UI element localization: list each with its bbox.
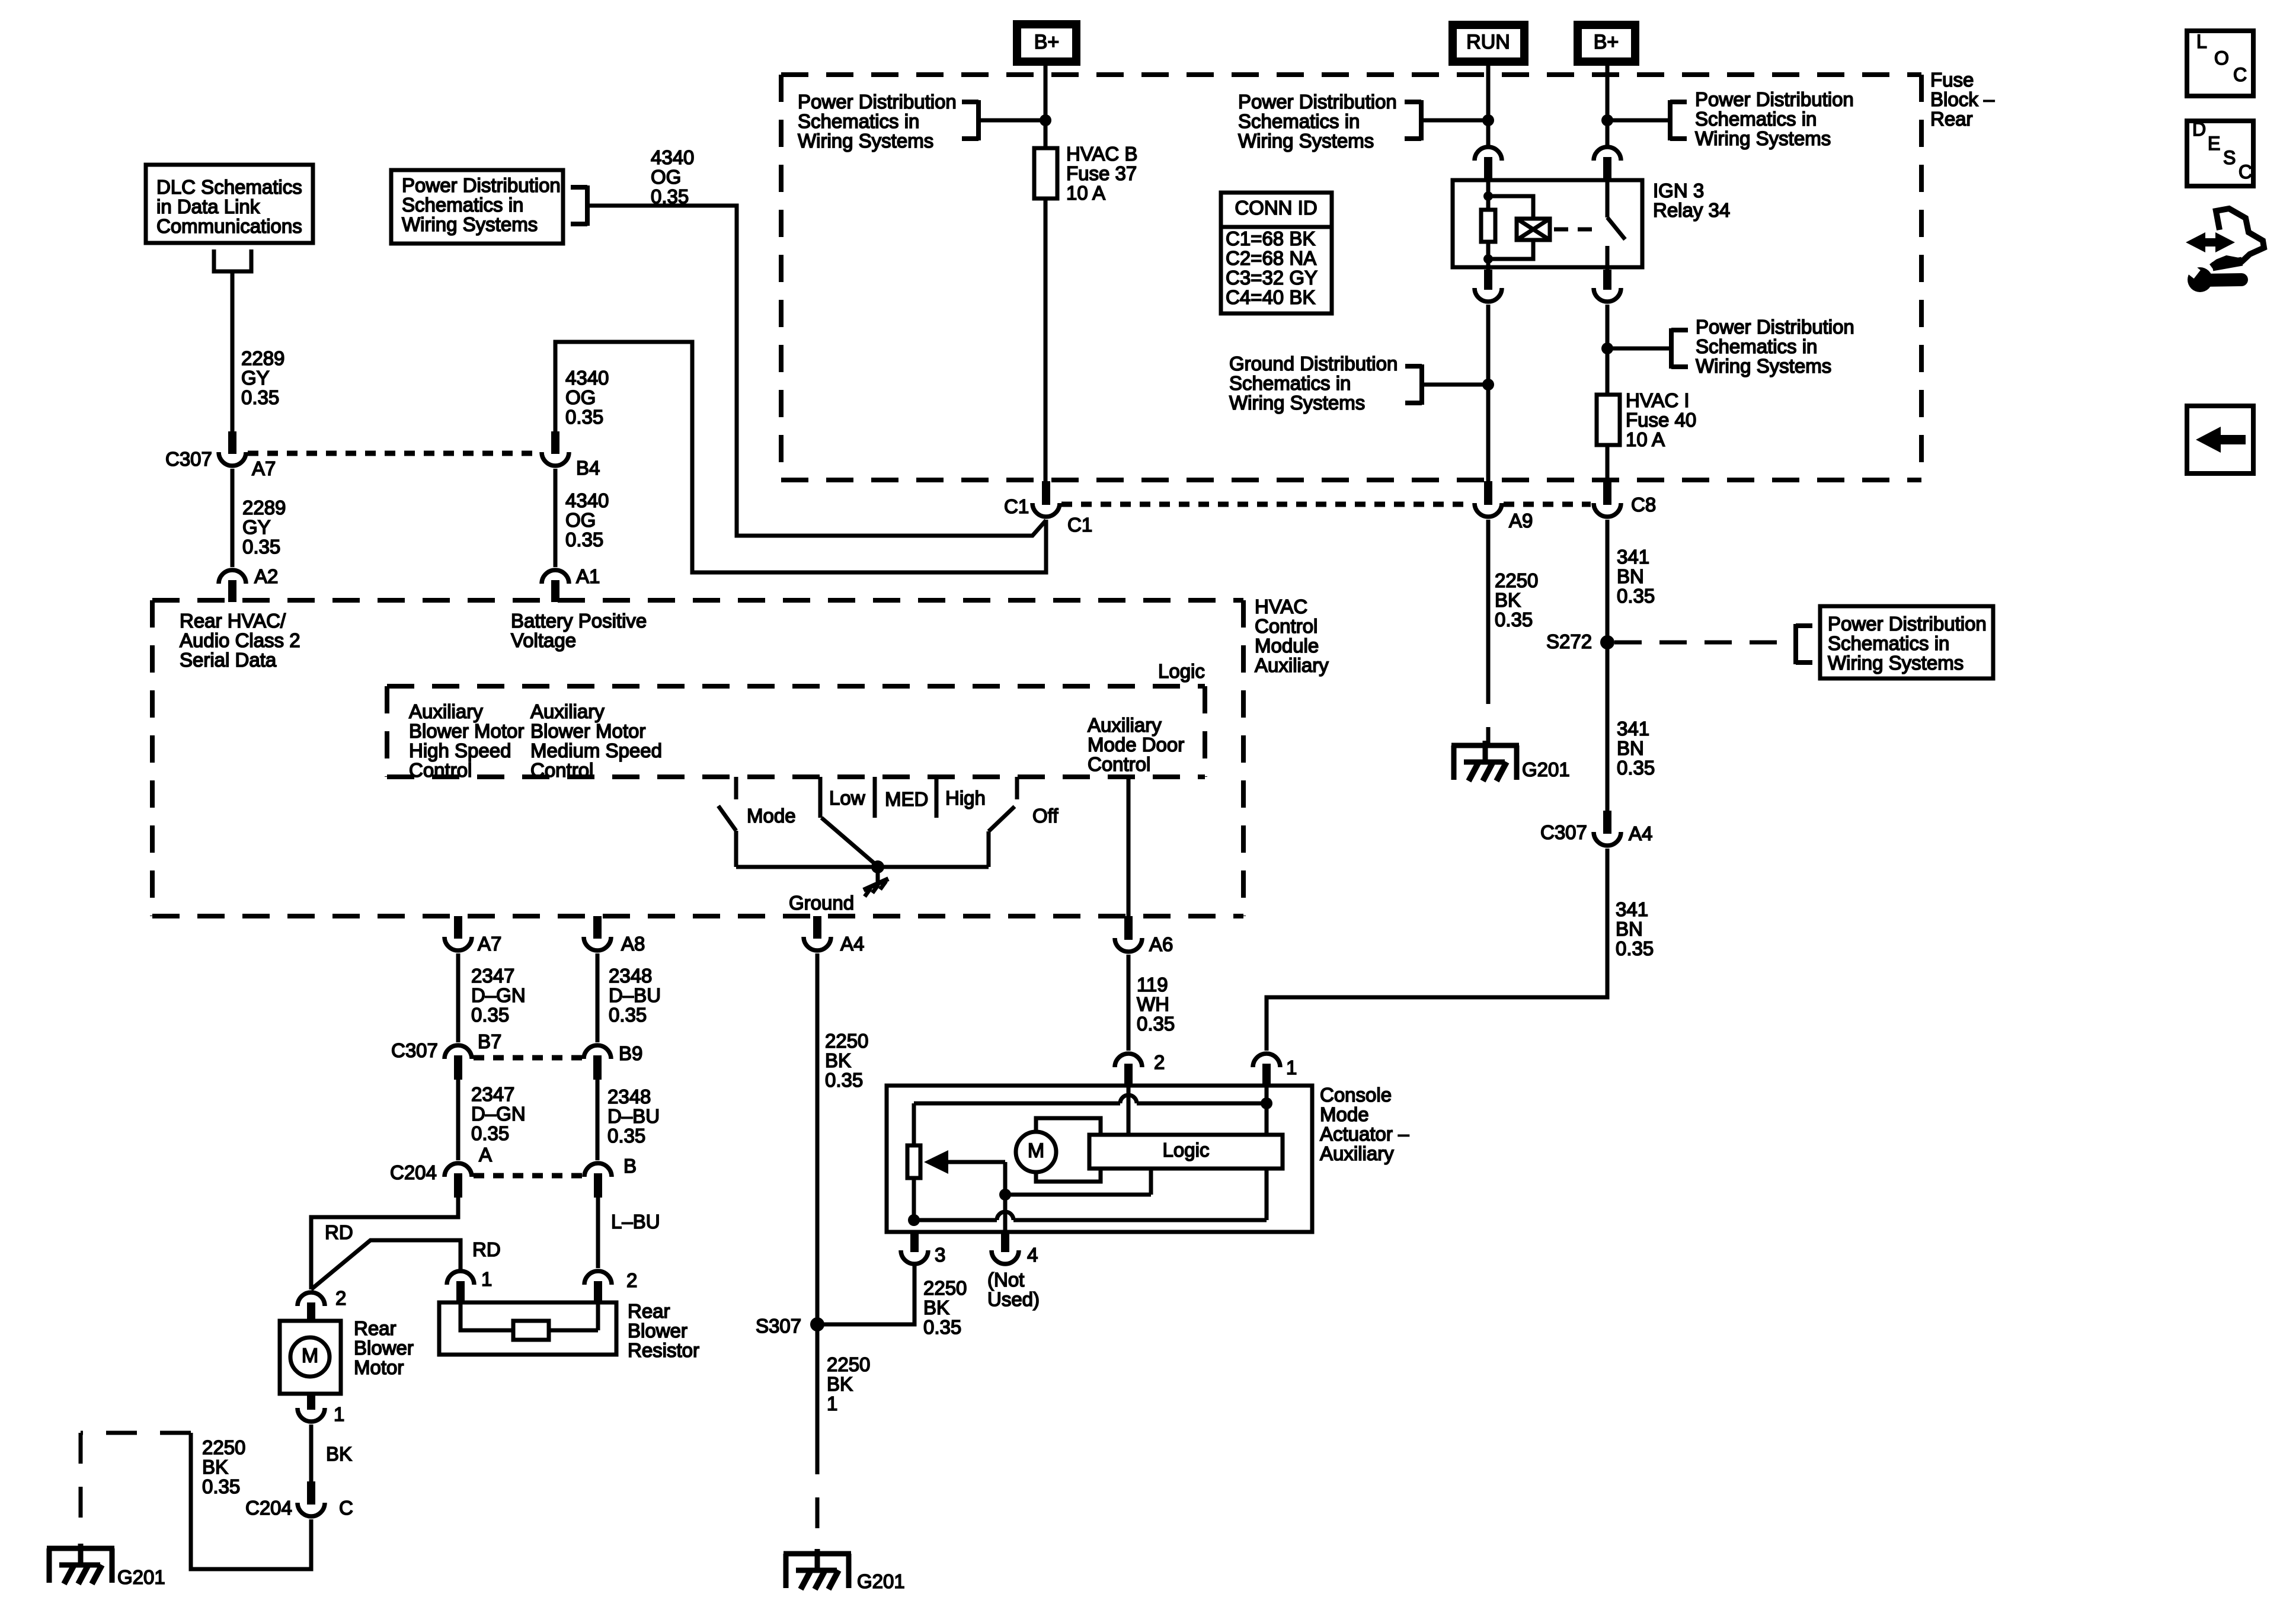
value label 2348 D-BU 0.35 (upper) [609, 965, 661, 1026]
svg-text:1: 1 [481, 1268, 492, 1290]
label Auxiliary Mode Door Control [1088, 714, 1184, 775]
relay coil symbol (box with X) [1517, 219, 1550, 240]
wire label RD (resistor) [472, 1238, 501, 1260]
svg-text:Serial Data: Serial Data [180, 649, 277, 671]
svg-text:4: 4 [1027, 1244, 1038, 1266]
value label 2347 D-GN 0.35 (lower) [471, 1083, 526, 1166]
module pin A2 connector [219, 570, 246, 602]
connector C1 (fuse block) [1032, 481, 1060, 517]
junction relay coil ground wire [1482, 379, 1494, 391]
svg-text:4340: 4340 [651, 146, 694, 168]
wire 341 BN from S272 to C307 A4 [1606, 642, 1610, 812]
relay switch input connector (B+) [1594, 147, 1621, 180]
wire 2250 BK from A9 to G201 [1486, 520, 1491, 744]
svg-text:0.35: 0.35 [825, 1069, 863, 1091]
svg-text:G201: G201 [1522, 758, 1570, 780]
icon adjust/repair (arrow and wrench) [2182, 209, 2264, 292]
wire 2289 GY from DLC box to C307 [231, 270, 235, 433]
wire RD C204 A to blower motor [311, 1198, 458, 1289]
actuator motor bracket [1036, 1118, 1101, 1182]
relay switch contact and blade [1607, 180, 1625, 270]
icon box LOC [2187, 31, 2253, 96]
svg-text:B9: B9 [619, 1042, 642, 1064]
svg-text:2250: 2250 [923, 1277, 967, 1299]
label High [945, 787, 986, 809]
svg-text:341: 341 [1617, 718, 1649, 740]
label Rear Blower Motor [354, 1317, 414, 1378]
svg-text:Schematics in: Schematics in [1695, 108, 1817, 130]
svg-text:C8: C8 [1631, 494, 1656, 516]
fuse HVAC B Fuse 37 10A [1034, 143, 1137, 204]
svg-text:Battery Positive: Battery Positive [511, 610, 647, 632]
rear blower motor M [280, 1321, 341, 1394]
svg-text:Power Distribution: Power Distribution [798, 91, 957, 113]
svg-text:L–BU: L–BU [611, 1211, 660, 1233]
svg-text:BK: BK [825, 1049, 851, 1071]
connector bracket under DLC box [214, 249, 251, 271]
svg-text:Wiring Systems: Wiring Systems [798, 130, 933, 152]
svg-text:Schematics in: Schematics in [402, 194, 523, 216]
selector contact bars MED [875, 777, 936, 818]
label C307 (row 1) [165, 448, 212, 470]
label (Not Used) [987, 1269, 1040, 1310]
fuse HVAC I Fuse 40 10A [1597, 389, 1696, 450]
svg-text:B+: B+ [1034, 31, 1060, 53]
bracket for S272 power distribution box [1796, 624, 1812, 664]
resistor element [461, 1301, 598, 1340]
connector C307 pin B4 (battery positive 4340) [542, 431, 569, 466]
svg-text:2347: 2347 [471, 965, 514, 987]
svg-text:Fuse 40: Fuse 40 [1626, 409, 1696, 431]
wire 2289 GY from C307 A7 to module A2 [231, 469, 235, 567]
svg-text:0.35: 0.35 [1616, 937, 1654, 959]
wire 2347 D-GN A7 to C307 B7 [456, 953, 461, 1042]
wire 2250 BK A4 to S307 [816, 953, 820, 1324]
svg-text:C3=32 GY: C3=32 GY [1226, 267, 1318, 289]
svg-text:Mode: Mode [1320, 1103, 1369, 1125]
switch Off [989, 777, 1059, 867]
actuator pin 1 inner wire [1265, 1086, 1269, 1220]
svg-text:Schematics in: Schematics in [1238, 110, 1360, 132]
actuator bottom rail with hop [914, 1212, 1267, 1220]
resistor pin 2 connector [584, 1269, 637, 1301]
svg-text:B4: B4 [576, 457, 600, 479]
svg-text:Resistor: Resistor [628, 1339, 699, 1361]
svg-text:High: High [945, 787, 986, 809]
svg-text:BK: BK [923, 1297, 949, 1318]
label Rear Blower Resistor [628, 1300, 699, 1361]
ground G201 (S307) [784, 1549, 905, 1592]
table CONN ID [1221, 193, 1332, 313]
C307 connector boundary dotted line [248, 451, 540, 456]
dashed wire S272 to Power Distribution reference [1614, 641, 1796, 645]
svg-text:1: 1 [1286, 1057, 1297, 1078]
svg-text:A1: A1 [576, 565, 600, 587]
svg-text:High Speed: High Speed [409, 740, 511, 761]
reference Power Distribution Schematics (RUN) [1238, 91, 1488, 152]
module pin A8 connector (medium speed) [584, 916, 645, 955]
reference Ground Distribution Schematics (relay coil ground) [1229, 353, 1488, 414]
svg-text:Block –: Block – [1930, 88, 1995, 110]
junction on B+ relay wire [1601, 114, 1613, 126]
bracket for Power Distribution box [571, 185, 587, 226]
pin label C8 [1631, 494, 1656, 516]
svg-text:G201: G201 [117, 1566, 165, 1588]
svg-text:GY: GY [242, 516, 271, 538]
pin label A7 (C307) [252, 457, 276, 479]
svg-text:Schematics in: Schematics in [1828, 632, 1949, 654]
svg-text:Auxiliary: Auxiliary [1088, 714, 1162, 736]
svg-text:D–BU: D–BU [607, 1105, 660, 1127]
value label 2289 GY 0.35 (lower) [242, 497, 286, 558]
box DLC Schematics in Data Link Communications [146, 165, 313, 243]
svg-text:O: O [2214, 47, 2229, 69]
value label 2347 D-GN 0.35 (upper) [471, 965, 526, 1026]
svg-text:A7: A7 [478, 933, 501, 955]
svg-text:Low: Low [829, 787, 865, 809]
switch common rail [736, 865, 989, 869]
svg-text:Mode Door: Mode Door [1088, 734, 1184, 756]
svg-text:0.35: 0.35 [471, 1122, 509, 1144]
svg-text:4340: 4340 [565, 489, 609, 511]
wire 2348 D-BU B9 to C204 B [596, 1080, 600, 1160]
svg-text:Control: Control [409, 759, 472, 781]
actuator position sensor (potentiometer) [907, 1103, 920, 1220]
svg-text:A7: A7 [252, 457, 276, 479]
svg-text:WH: WH [1137, 993, 1169, 1015]
wire fuse 40 output to C8 [1606, 445, 1610, 484]
module pin A1 connector [542, 570, 569, 602]
svg-text:0.35: 0.35 [1617, 585, 1655, 607]
svg-text:Used): Used) [987, 1288, 1040, 1310]
box Power Distribution Schematics (S272) [1820, 606, 1993, 678]
icon box back-arrow [2187, 406, 2253, 473]
relay coil circuit wires [1486, 180, 1491, 270]
value label 119 WH 0.35 [1137, 974, 1175, 1035]
svg-text:S307: S307 [756, 1315, 801, 1337]
svg-text:MED: MED [885, 788, 928, 810]
svg-text:Wiring Systems: Wiring Systems [1828, 652, 1964, 674]
svg-text:2289: 2289 [241, 347, 284, 369]
svg-text:0.35: 0.35 [923, 1316, 961, 1338]
connector C2 pin A9 [1475, 481, 1502, 517]
svg-text:C: C [2233, 64, 2247, 85]
wiper wire to logic and pin 4 [1005, 1162, 1151, 1195]
svg-text:G201: G201 [857, 1570, 905, 1592]
value label 2289 GY 0.35 (upper) [241, 347, 284, 408]
svg-text:1: 1 [334, 1403, 344, 1425]
svg-text:Off: Off [1032, 805, 1059, 827]
svg-text:D–GN: D–GN [471, 1103, 526, 1125]
svg-text:C307: C307 [391, 1039, 438, 1061]
svg-text:A: A [479, 1144, 492, 1166]
svg-text:Logic: Logic [1163, 1139, 1210, 1161]
wire S307 to actuator pin 3 [817, 1266, 914, 1324]
svg-text:OG: OG [565, 386, 596, 408]
svg-text:B7: B7 [478, 1030, 501, 1052]
svg-text:341: 341 [1617, 546, 1649, 568]
svg-text:2: 2 [626, 1269, 637, 1291]
svg-text:A4: A4 [840, 933, 864, 955]
wire 2348 D-BU A8 to C307 B9 [596, 953, 600, 1042]
svg-text:Fuse 37: Fuse 37 [1066, 162, 1137, 184]
C204 dotted boundary [474, 1173, 583, 1179]
relay coil resistor [1481, 210, 1495, 242]
svg-text:OG: OG [565, 509, 596, 531]
label C1 right [1067, 514, 1092, 536]
value label 2250 BK 1 [827, 1353, 870, 1414]
svg-text:Rear: Rear [354, 1317, 396, 1339]
svg-text:0.35: 0.35 [202, 1475, 240, 1497]
svg-text:2250: 2250 [825, 1030, 868, 1052]
wire 4340 OG from C1 to C307 B4 [555, 342, 1046, 572]
box Power Distribution Schematics in Wiring Systems (4340 feed) [391, 170, 563, 244]
connector C307 pin A7 (DLC serial data) [219, 431, 246, 466]
reference Power Distribution Schematics (B+ fuse37) [798, 91, 1045, 152]
module pin A6 connector (mode door) [1115, 916, 1173, 955]
wire 4340 OG from Power Distribution box to C1 splice [587, 206, 1046, 536]
value label 2250 BK 0.35 (A4) [825, 1030, 868, 1091]
svg-text:BN: BN [1617, 565, 1644, 587]
svg-text:BK: BK [1495, 589, 1521, 611]
svg-text:2347: 2347 [471, 1083, 514, 1105]
power terminal B+ (relay feed) [1578, 25, 1635, 62]
label IGN 3 Relay 34 [1653, 180, 1730, 221]
wire relay switch output to fuse 40 [1606, 305, 1610, 395]
svg-text:10 A: 10 A [1626, 428, 1665, 450]
value label 2250 BK 0.35 (pin 3) [923, 1277, 967, 1338]
svg-text:C204: C204 [245, 1497, 292, 1519]
reference Power Distribution Schematics (B+ relay) [1607, 88, 1854, 149]
wire 341 BN from C8 to S272 [1606, 520, 1610, 642]
svg-text:(Not: (Not [987, 1269, 1024, 1291]
svg-text:341: 341 [1616, 898, 1648, 920]
actuator logic block [1089, 1135, 1283, 1169]
svg-text:C1: C1 [1004, 495, 1029, 517]
relay output connector (switch side) [1594, 270, 1621, 302]
ground G201 (left) [47, 1544, 165, 1588]
svg-text:Mode: Mode [747, 805, 796, 827]
wire relay coil to A9 [1486, 305, 1491, 482]
power terminal B+ (fuse 37 feed) [1017, 24, 1076, 62]
svg-text:0.35: 0.35 [471, 1004, 509, 1026]
rear blower resistor box [439, 1302, 616, 1355]
svg-text:B: B [623, 1155, 637, 1177]
value label 2348 D-BU 0.35 (lower) [607, 1086, 660, 1147]
svg-text:Blower: Blower [628, 1320, 687, 1342]
svg-text:3: 3 [935, 1244, 945, 1266]
C307 row 2 dotted boundary [474, 1055, 582, 1061]
switch Mode [718, 777, 796, 867]
connector C204 pin B [584, 1155, 637, 1198]
wire aux mode door control inside module [1127, 777, 1131, 916]
svg-text:C307: C307 [1540, 821, 1587, 843]
svg-text:D–GN: D–GN [471, 984, 526, 1006]
svg-text:Schematics in: Schematics in [1229, 372, 1351, 394]
value label 341 BN 0.35 (to actuator) [1616, 898, 1654, 959]
svg-text:C4=40 BK: C4=40 BK [1226, 286, 1315, 308]
wire 119 WH A6 to actuator pin 2 [1127, 955, 1131, 1051]
svg-text:2348: 2348 [609, 965, 652, 987]
wire B+ feed to relay switch [1606, 66, 1610, 145]
fuse block dashed outline: Fuse Block - Rear [781, 75, 1921, 480]
wire 2250 BK 1 S307 to G201 [816, 1324, 820, 1553]
wiper arrow to potentiometer [924, 1150, 1005, 1174]
svg-text:L: L [2196, 31, 2207, 52]
svg-text:A9: A9 [1509, 510, 1533, 532]
svg-text:BK: BK [827, 1373, 853, 1395]
relay actuation dashed link [1554, 228, 1593, 232]
svg-text:OG: OG [651, 166, 681, 188]
connector C8 pin [1594, 481, 1621, 517]
svg-text:HVAC: HVAC [1255, 596, 1307, 617]
svg-text:A2: A2 [254, 565, 278, 587]
svg-text:Module: Module [1255, 635, 1319, 657]
label Auxiliary Blower Motor High Speed Control [409, 700, 524, 781]
label Console Mode Actuator - Auxiliary [1320, 1084, 1409, 1164]
relay IGN 3 Relay 34 box [1453, 180, 1642, 267]
svg-text:A4: A4 [1629, 822, 1652, 844]
svg-text:0.35: 0.35 [565, 406, 603, 428]
svg-text:Power Distribution: Power Distribution [1828, 613, 1987, 635]
svg-text:C1=68 BK: C1=68 BK [1226, 228, 1315, 249]
svg-text:2: 2 [1154, 1051, 1165, 1073]
module pin A4 connector (ground) [804, 916, 864, 955]
svg-text:GY: GY [241, 367, 270, 389]
relay coil input connector (RUN) [1475, 147, 1502, 180]
svg-text:Console: Console [1320, 1084, 1392, 1106]
actuator pin 1 connector [1253, 1054, 1297, 1086]
value label 4340 OG 0.35 (above B4) [565, 367, 609, 428]
dashed ground wire to G201 (left) [81, 1433, 191, 1541]
svg-text:M: M [302, 1345, 318, 1367]
label C307 (A4) [1540, 821, 1587, 843]
svg-text:Logic: Logic [1158, 660, 1205, 682]
svg-text:0.35: 0.35 [607, 1125, 645, 1147]
svg-text:RD: RD [472, 1238, 501, 1260]
svg-text:Wiring Systems: Wiring Systems [1229, 392, 1365, 414]
label HVAC Control Module Auxiliary [1255, 596, 1329, 676]
svg-text:C1: C1 [1067, 514, 1092, 536]
relay coil parallel branch [1488, 196, 1533, 259]
svg-text:Control: Control [530, 759, 593, 781]
svg-text:Auxiliary: Auxiliary [1255, 654, 1329, 676]
svg-text:1: 1 [827, 1393, 837, 1414]
svg-text:0.35: 0.35 [241, 386, 279, 408]
svg-text:Auxiliary: Auxiliary [409, 700, 483, 722]
wire BK motor to C204 C [311, 1425, 352, 1484]
svg-text:S272: S272 [1546, 630, 1592, 652]
label Fuse Block - Rear [1930, 69, 1995, 130]
svg-text:M: M [1028, 1140, 1044, 1162]
svg-text:CONN ID: CONN ID [1235, 197, 1317, 219]
svg-text:RD: RD [325, 1221, 353, 1243]
svg-text:B+: B+ [1594, 31, 1619, 53]
svg-text:Control: Control [1255, 615, 1318, 637]
wire B+ to HVAC B fuse [1044, 66, 1048, 149]
svg-text:Blower Motor: Blower Motor [409, 720, 524, 742]
svg-text:0.35: 0.35 [1617, 757, 1655, 779]
module pin A7 connector (high speed) [445, 916, 501, 955]
svg-text:Schematics in: Schematics in [1696, 335, 1817, 357]
junction on RUN wire [1482, 114, 1494, 126]
console mode actuator box [887, 1086, 1312, 1232]
power terminal RUN [1453, 25, 1524, 62]
Logic dashed inner box [387, 686, 1205, 777]
HVAC Control Module Auxiliary dashed outline [152, 600, 1243, 916]
connector C307 pin B9 [584, 1042, 642, 1080]
connector C204 pin A [390, 1161, 472, 1198]
actuator pin 3 connector [901, 1230, 945, 1266]
value label 341 BN 0.35 (above S272) [1617, 546, 1655, 607]
wire RD branch to resistor pin 1 [311, 1240, 461, 1289]
net label Battery Positive Voltage [511, 610, 647, 651]
svg-text:C: C [2239, 161, 2252, 183]
svg-text:4340: 4340 [565, 367, 609, 389]
junction on B+ wire at fuse 37 [1040, 114, 1051, 126]
svg-text:2250: 2250 [202, 1436, 245, 1458]
svg-text:Wiring Systems: Wiring Systems [1695, 127, 1831, 149]
ground G201 (A9) [1451, 741, 1570, 781]
pin label A9 [1509, 510, 1533, 532]
svg-text:Ground Distribution: Ground Distribution [1229, 353, 1398, 375]
svg-text:in Data Link: in Data Link [156, 196, 260, 217]
svg-text:Blower Motor: Blower Motor [530, 720, 645, 742]
svg-text:Wiring Systems: Wiring Systems [402, 213, 538, 235]
svg-text:D–BU: D–BU [609, 984, 661, 1006]
splice S272 [1546, 630, 1614, 652]
pin 4 wire through rail hop [1003, 1195, 1008, 1232]
svg-text:0.35: 0.35 [1137, 1013, 1175, 1035]
resistor pin 1 connector [447, 1268, 492, 1301]
net label Rear HVAC/Audio Class 2 Serial Data [180, 610, 300, 671]
connector C204 pin C [245, 1481, 353, 1519]
actuator feed rail with hop [914, 1095, 1267, 1103]
wire 2250 BK C204 C to ground run [191, 1433, 311, 1569]
svg-text:E: E [2208, 133, 2220, 154]
svg-text:DLC Schematics: DLC Schematics [156, 176, 302, 198]
icon box DESC [2187, 119, 2253, 186]
svg-text:10 A: 10 A [1066, 182, 1105, 204]
pin label A1 [576, 565, 600, 587]
svg-text:Communications: Communications [156, 215, 302, 237]
wire 2347 D-GN B7 to C204 A [456, 1080, 461, 1160]
wire fuse 37 output to connector C1 [1044, 199, 1048, 484]
svg-text:Rear: Rear [1930, 108, 1973, 130]
svg-text:2289: 2289 [242, 497, 286, 518]
value label 4340 OG 0.35 (top run) [651, 146, 694, 207]
internal ground symbol (switch rail) [864, 867, 888, 897]
label C1 left [1004, 495, 1029, 517]
blower motor pin 2 connector [298, 1287, 346, 1320]
connector C307 pin A4 (mode door feed) [1594, 811, 1621, 846]
label Auxiliary Blower Motor Medium Speed Control [530, 700, 662, 781]
value label 341 BN 0.35 (below S272) [1617, 718, 1655, 779]
actuator motor M [1016, 1132, 1056, 1172]
svg-text:C204: C204 [390, 1161, 437, 1183]
svg-text:0.35: 0.35 [1495, 609, 1533, 630]
svg-text:Wiring Systems: Wiring Systems [1238, 130, 1374, 152]
value label 2250 BK 0.35 (A9) [1495, 569, 1538, 630]
svg-text:Voltage: Voltage [511, 629, 576, 651]
switch contact Low [820, 777, 865, 818]
wire label RD (motor) [325, 1221, 353, 1243]
svg-text:Blower: Blower [354, 1337, 414, 1359]
svg-text:Rear HVAC/: Rear HVAC/ [180, 610, 286, 632]
svg-text:C307: C307 [165, 448, 212, 470]
svg-text:C: C [339, 1497, 353, 1519]
actuator pin 4 connector [992, 1230, 1038, 1266]
